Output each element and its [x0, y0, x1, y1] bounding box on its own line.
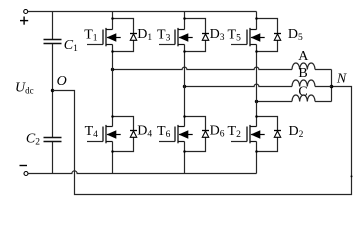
svg-text:T2: T2: [228, 124, 242, 140]
svg-text:T3: T3: [157, 27, 171, 43]
svg-text:B: B: [298, 66, 307, 81]
svg-text:T1: T1: [84, 27, 98, 43]
svg-text:T4: T4: [85, 124, 99, 140]
svg-text:A: A: [298, 49, 309, 64]
svg-text:T6: T6: [157, 124, 171, 140]
svg-text:D2: D2: [289, 124, 304, 140]
svg-text:D1: D1: [137, 27, 152, 43]
svg-text:T5: T5: [228, 27, 242, 43]
svg-text:C: C: [298, 84, 307, 99]
svg-text:C2: C2: [26, 131, 40, 147]
svg-text:D3: D3: [210, 27, 225, 43]
svg-text:D6: D6: [210, 123, 225, 139]
svg-text:N: N: [336, 72, 347, 87]
svg-text:D4: D4: [137, 123, 152, 139]
svg-text:Udc: Udc: [15, 80, 34, 95]
svg-text:C1: C1: [64, 38, 78, 54]
svg-text:D5: D5: [288, 27, 303, 43]
svg-text:O: O: [57, 74, 67, 89]
